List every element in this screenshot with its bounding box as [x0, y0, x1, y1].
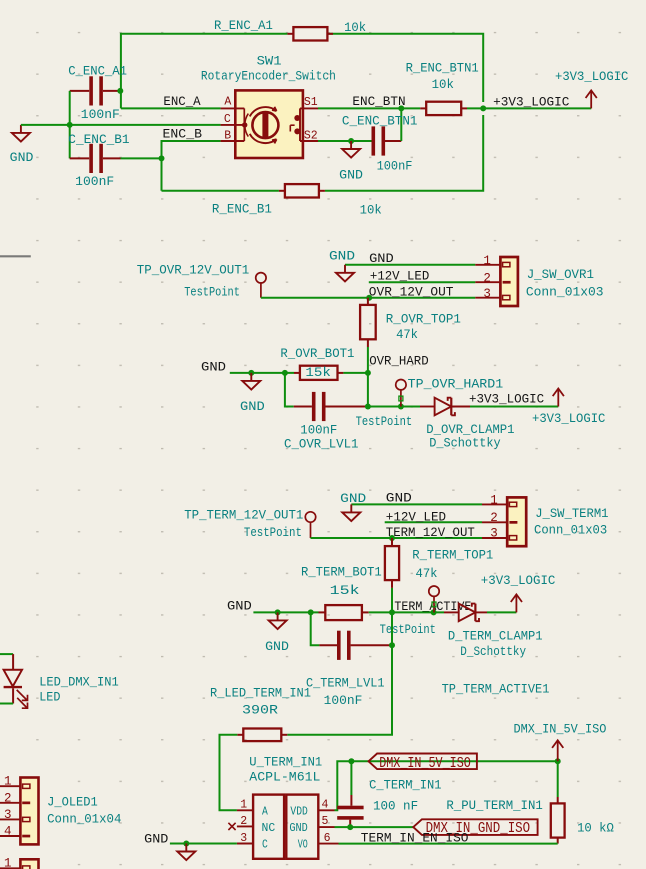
svg-text:3: 3: [483, 287, 491, 301]
wire TERM_ACTIVE row left: [253, 611, 318, 613]
wire R_ENC_B1 bottom row: [162, 190, 279, 192]
svg-text:GND: GND: [289, 822, 307, 835]
svg-text:10k: 10k: [360, 203, 382, 217]
junction TP_TERM_ACTIVE1: [431, 609, 437, 615]
global label DMX_IN_5V_ISO: [369, 754, 477, 772]
connector J2 partial bottom: [0, 857, 39, 869]
svg-text:C_ENC_BTN1: C_ENC_BTN1: [342, 115, 418, 129]
svg-text:10 kΩ: 10 kΩ: [577, 822, 614, 836]
svg-text:R_PU_TERM_IN1: R_PU_TERM_IN1: [446, 799, 542, 813]
ground GND OVR mid: [240, 373, 265, 414]
diode D_OVR_CLAMP1 D_Schottky: [420, 398, 515, 451]
svg-text:15k: 15k: [330, 584, 360, 598]
capacitor C_TERM_IN1 (vertical): [337, 761, 441, 827]
resistor R_ENC_B1: [212, 184, 382, 217]
U pin 4: [318, 809, 334, 811]
wire to GND label tip: [350, 826, 413, 828]
switch SW1 RotaryEncoder_Switch body: [235, 90, 303, 158]
svg-text:GND: GND: [369, 252, 394, 266]
svg-text:R_ENC_A1: R_ENC_A1: [214, 19, 273, 33]
wire TERM_ACTIVE down: [391, 612, 393, 645]
svg-text:C_TERM_LVL1: C_TERM_LVL1: [306, 677, 385, 691]
resistor R_OVR_TOP1: [360, 298, 461, 373]
svg-text:TP_OVR_12V_OUT1: TP_OVR_12V_OUT1: [137, 264, 249, 278]
svg-text:LED: LED: [39, 690, 60, 704]
svg-text:+3V3_LOGIC: +3V3_LOGIC: [555, 70, 628, 84]
svg-text:B: B: [224, 129, 231, 142]
svg-text:TestPoint: TestPoint: [356, 415, 413, 429]
power DMX_IN_5V_ISO arrow: [514, 722, 607, 761]
junction GND wire / caps: [67, 122, 73, 128]
svg-text:ACPL-M61L: ACPL-M61L: [249, 771, 320, 785]
svg-text:D_Schottky: D_Schottky: [429, 437, 501, 451]
wire pin5 to DMX_IN_GND_ISO: [335, 826, 351, 828]
capacitor C_OVR_LVL1: [284, 373, 368, 452]
wire TERM_IN_EN_ISO: [339, 843, 558, 845]
connector J_SW_TERM1: [482, 494, 609, 547]
wire R_LED to U pin1: [220, 735, 238, 811]
svg-text:1: 1: [4, 857, 12, 869]
svg-text:GND: GND: [144, 832, 168, 846]
svg-text:1: 1: [240, 799, 247, 812]
svg-text:100nF: 100nF: [81, 108, 120, 122]
svg-text:47k: 47k: [416, 567, 438, 581]
wire S2 row: [318, 140, 372, 142]
svg-text:RotaryEncoder_Switch: RotaryEncoder_Switch: [201, 69, 336, 83]
svg-text:GND: GND: [340, 492, 366, 506]
wire TERM_ACTIVE to diode: [392, 611, 444, 613]
svg-text:4: 4: [4, 825, 12, 839]
svg-text:C_OVR_LVL1: C_OVR_LVL1: [284, 437, 359, 451]
svg-text:Conn_01x03: Conn_01x03: [534, 524, 607, 538]
resistor R_PU_TERM_IN1: [446, 761, 614, 843]
SW1 pin S1: [300, 107, 318, 109]
svg-text:GND: GND: [386, 492, 412, 506]
svg-text:R_LED_TERM_IN1: R_LED_TERM_IN1: [210, 686, 311, 700]
resistor R_TERM_TOP1: [385, 538, 493, 612]
svg-text:Conn_01x04: Conn_01x04: [47, 812, 121, 826]
svg-text:1: 1: [483, 254, 491, 268]
testpoint TP_TERM_ACTIVE1: [380, 586, 550, 696]
wire ENC_A row: [121, 107, 221, 109]
svg-text:5: 5: [322, 815, 329, 828]
svg-text:15k: 15k: [305, 366, 331, 380]
svg-text:J_SW_OVR1: J_SW_OVR1: [527, 268, 594, 282]
junction cap branch TERM: [308, 609, 314, 615]
graphic gray line left edge: [0, 255, 31, 257]
junction TERM_ACTIVE column: [389, 609, 395, 615]
diode D_TERM_CLAMP1 D_Schottky: [444, 604, 543, 659]
ground GND TERM row1: [340, 492, 366, 521]
junction TERM row3 / R_TERM_TOP1: [389, 535, 395, 541]
junction cap A1 / net A: [117, 88, 123, 94]
U pin 6: [318, 843, 338, 845]
svg-text:+3V3_LOGIC: +3V3_LOGIC: [481, 574, 556, 588]
svg-text:6: 6: [324, 832, 331, 845]
svg-text:R_OVR_BOT1: R_OVR_BOT1: [280, 347, 354, 361]
svg-text:D_Schottky: D_Schottky: [460, 645, 526, 659]
junction GND stem OVR: [248, 370, 254, 376]
svg-text:1: 1: [490, 494, 498, 508]
wire ENC_BTN: [318, 107, 420, 109]
svg-text:TP_OVR_HARD1: TP_OVR_HARD1: [408, 377, 504, 391]
svg-text:GND: GND: [240, 400, 265, 414]
svg-text:TP_TERM_ACTIVE1: TP_TERM_ACTIVE1: [442, 682, 550, 696]
junction cap B1 / ENC_B: [159, 155, 165, 161]
connector J_OLED1: [0, 775, 121, 845]
svg-text:100nF: 100nF: [377, 160, 413, 174]
ground GND at S2: [339, 141, 363, 183]
svg-text:A: A: [262, 805, 268, 818]
wire OVR row3 OVR_12V_OUT: [261, 297, 475, 299]
resistor R_OVR_BOT1 with 15k inside: [280, 347, 368, 380]
svg-text:J_SW_TERM1: J_SW_TERM1: [535, 507, 608, 521]
svg-text:+12V_LED: +12V_LED: [370, 269, 429, 283]
wire TERM row3 TERM_12V_OUT: [311, 537, 483, 539]
svg-text:R_TERM_TOP1: R_TERM_TOP1: [412, 549, 493, 563]
svg-text:100nF: 100nF: [300, 423, 337, 437]
global label DMX_IN_GND_ISO: [413, 819, 537, 837]
U pin 3: [237, 843, 253, 845]
svg-text:SW1: SW1: [257, 54, 282, 68]
resistor R_TERM_BOT1: [301, 566, 392, 620]
svg-text:4: 4: [322, 799, 329, 812]
svg-text:+3V3_LOGIC: +3V3_LOGIC: [493, 96, 569, 110]
SW1 rotation arrows: [250, 107, 277, 116]
junction S2 GND: [348, 138, 354, 144]
SW1 internal bracket and pin C dot: [243, 108, 245, 141]
svg-text:TestPoint: TestPoint: [184, 286, 240, 300]
opto U_TERM_IN1 ACPL-M61L: [249, 756, 322, 859]
svg-text:S2: S2: [304, 129, 318, 142]
wire OVR row2 +12V_LED: [369, 281, 476, 283]
svg-text:NC: NC: [262, 822, 276, 835]
svg-text:47k: 47k: [396, 328, 418, 342]
svg-text:OVR_HARD: OVR_HARD: [369, 354, 429, 368]
svg-text:J_OLED1: J_OLED1: [47, 796, 98, 810]
wire ENC_BTN to +3V3: [467, 107, 591, 109]
svg-text:GND: GND: [339, 169, 363, 183]
junction cap/testpoint row: [365, 404, 371, 410]
junction GND stem TERM: [275, 609, 281, 615]
ground GND U pin3: [170, 843, 237, 845]
svg-text:C_ENC_A1: C_ENC_A1: [68, 64, 127, 78]
svg-text:2: 2: [4, 791, 12, 805]
ground GND top-left: [10, 125, 34, 165]
wire to diode: [368, 406, 420, 408]
wire OVR row1 GND: [345, 264, 475, 266]
wire diode to +3V3 term: [487, 611, 516, 613]
power +3V3_LOGIC term: [481, 574, 556, 612]
resistor R_ENC_A1: [214, 19, 366, 40]
SW1 pin A: [221, 107, 245, 109]
svg-text:ENC_B: ENC_B: [163, 127, 203, 141]
wire GND row to SW1 pin C: [21, 124, 221, 126]
svg-text:C_ENC_B1: C_ENC_B1: [68, 133, 129, 147]
capacitor C_ENC_A1: [68, 64, 127, 122]
svg-text:3: 3: [240, 832, 247, 845]
capacitor C_TERM_LVL1: [306, 612, 392, 708]
SW1 switch contacts: [299, 108, 301, 141]
U pin 5: [318, 826, 334, 828]
wire C_ENC_A1 to GND net: [69, 91, 71, 125]
svg-text:10k: 10k: [432, 78, 454, 92]
svg-text:C: C: [262, 838, 268, 851]
svg-text:DMX_IN_5V_ISO: DMX_IN_5V_ISO: [379, 755, 471, 772]
connector J_SW_OVR1: [475, 254, 603, 306]
SW1 pin C: [221, 124, 244, 126]
svg-text:ENC_A: ENC_A: [163, 95, 201, 109]
svg-text:R_ENC_BTN1: R_ENC_BTN1: [406, 61, 479, 75]
svg-text:DMX_IN_5V_ISO: DMX_IN_5V_ISO: [514, 722, 607, 736]
junction OVR row3 / R_OVR_TOP1: [366, 295, 372, 301]
svg-text:OVR_12V_OUT: OVR_12V_OUT: [369, 285, 454, 299]
wire ENC_B: [162, 141, 221, 191]
svg-text:VO: VO: [298, 838, 308, 851]
svg-text:100 nF: 100 nF: [373, 800, 418, 814]
svg-text:2: 2: [490, 511, 498, 525]
U pin 2 with no-connect X: [237, 825, 253, 827]
junction ENC_BTN / cap BTN: [398, 105, 404, 111]
junction cap C_TERM_IN1 top: [348, 758, 354, 764]
svg-text:R_TERM_BOT1: R_TERM_BOT1: [301, 566, 382, 580]
ground GND TERM mid: [265, 612, 289, 654]
svg-text:+3V3_LOGIC: +3V3_LOGIC: [532, 412, 605, 426]
wire TERM row1 GND: [351, 503, 482, 505]
svg-text:TestPoint: TestPoint: [380, 623, 436, 637]
svg-text:2: 2: [483, 271, 491, 285]
power +3V3_LOGIC top: [555, 70, 628, 108]
testpoint TP_TERM_12V_OUT1: [184, 509, 315, 540]
testpoint TP_OVR_HARD1: [356, 377, 504, 429]
svg-text:1: 1: [4, 775, 12, 789]
svg-text:D_TERM_CLAMP1: D_TERM_CLAMP1: [448, 630, 543, 644]
SW1 pin B: [221, 140, 245, 142]
svg-text:GND: GND: [227, 600, 252, 614]
wire OVR_HARD down to cap: [367, 373, 369, 407]
svg-text:10k: 10k: [344, 21, 366, 35]
junction TP_OVR_HARD1: [398, 404, 404, 410]
wire TERM row2 +12V_LED: [385, 521, 482, 523]
junction cap branch OVR: [282, 370, 288, 376]
SW1 pin S2: [300, 140, 318, 142]
wire diode to +3V3: [470, 406, 558, 408]
SW1 knob: [252, 112, 278, 138]
capacitor C_ENC_BTN1: [342, 108, 418, 173]
svg-text:Conn_01x03: Conn_01x03: [526, 285, 604, 299]
wire down to R_LED row: [287, 645, 392, 735]
resistor R_LED_TERM_IN1: [210, 686, 311, 741]
svg-text:+3V3_LOGIC: +3V3_LOGIC: [469, 393, 544, 407]
svg-text:3: 3: [4, 808, 12, 822]
svg-text:2: 2: [240, 815, 247, 828]
U pin 1: [237, 809, 253, 811]
svg-text:ENC_BTN: ENC_BTN: [352, 95, 405, 109]
svg-text:+12V_LED: +12V_LED: [386, 510, 446, 524]
svg-text:R_ENC_B1: R_ENC_B1: [212, 203, 272, 217]
wire U pin4 to DMX_IN_5V_ISO row: [335, 761, 558, 810]
testpoint TP_OVR_12V_OUT1: [137, 264, 266, 300]
svg-text:C: C: [224, 113, 231, 126]
svg-text:TERM_12V_OUT: TERM_12V_OUT: [386, 526, 475, 540]
junction DMX 5V / R_PU: [555, 758, 561, 764]
ground GND OVR row1: [329, 250, 355, 282]
svg-text:GND: GND: [329, 250, 355, 264]
svg-text:A: A: [224, 95, 231, 108]
svg-text:390R: 390R: [242, 704, 279, 718]
svg-text:TERM_IN_EN_ISO: TERM_IN_EN_ISO: [361, 832, 469, 846]
power +3V3_LOGIC ovr: [532, 389, 605, 426]
svg-text:GND: GND: [201, 360, 226, 374]
svg-text:U_TERM_IN1: U_TERM_IN1: [249, 756, 322, 770]
junction cap TERM_LVL row: [389, 642, 395, 648]
svg-text:3: 3: [490, 527, 498, 541]
svg-text:R_OVR_TOP1: R_OVR_TOP1: [386, 313, 461, 327]
resistor R_ENC_BTN1: [406, 61, 479, 115]
junction +3V3 column: [480, 105, 486, 111]
capacitor C_ENC_B1: [68, 125, 161, 189]
svg-text:TP_TERM_12V_OUT1: TP_TERM_12V_OUT1: [184, 509, 303, 523]
svg-text:100nF: 100nF: [324, 694, 363, 708]
wire OVR_HARD row: [230, 372, 294, 374]
svg-text:LED_DMX_IN1: LED_DMX_IN1: [39, 675, 119, 689]
svg-text:GND: GND: [265, 640, 289, 654]
svg-text:GND: GND: [10, 151, 34, 165]
LED LED_DMX_IN1: [0, 654, 119, 708]
wire net R_ENC_A1 top: [121, 34, 288, 109]
svg-text:100nF: 100nF: [75, 175, 114, 189]
svg-text:S1: S1: [304, 96, 318, 109]
svg-text:D_OVR_CLAMP1: D_OVR_CLAMP1: [426, 423, 514, 437]
svg-text:VDD: VDD: [290, 805, 307, 818]
junction OVR_HARD column: [365, 370, 371, 376]
svg-text:C_TERM_IN1: C_TERM_IN1: [369, 779, 441, 793]
svg-text:TestPoint: TestPoint: [244, 526, 302, 540]
